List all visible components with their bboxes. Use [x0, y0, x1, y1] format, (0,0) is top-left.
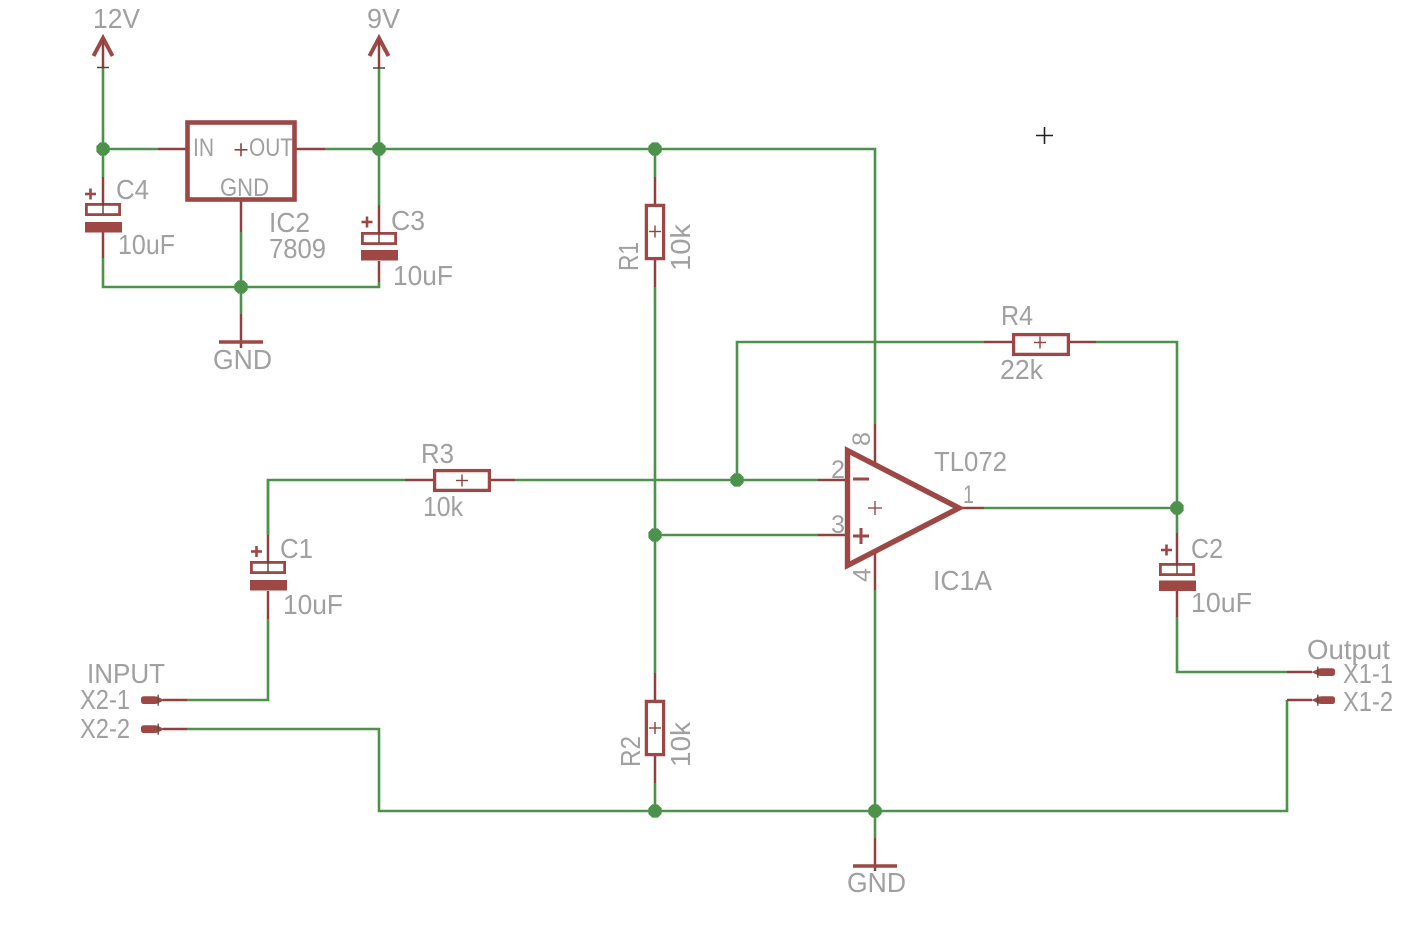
- wire R3 right to node A: [515, 479, 737, 482]
- pin R1 bottom: [654, 260, 657, 287]
- svg-text:X2-1: X2-1: [80, 684, 130, 715]
- wire node A to op-amp pin 2: [737, 479, 818, 482]
- svg-text:10uF: 10uF: [1191, 587, 1252, 618]
- wire R1 bottom to R2 top (divider): [654, 287, 657, 673]
- svg-text:X1-1: X1-1: [1343, 658, 1393, 689]
- pin C2 bottom: [1176, 591, 1179, 617]
- wire 12V down to C4: [102, 149, 105, 177]
- svg-text:X2-2: X2-2: [80, 713, 130, 744]
- wire 12V rail to IC2 IN: [103, 148, 158, 151]
- wire C4 bottom to ground rail: [103, 258, 241, 287]
- wire R2 bottom to bottom bus: [654, 783, 657, 811]
- wire node A up to feedback R4 left: [737, 342, 984, 480]
- junction bottom bus / R2: [648, 804, 661, 817]
- svg-text:GND: GND: [847, 867, 906, 898]
- connector pad X2-2: [141, 724, 165, 735]
- wire C1 upper segment: [267, 480, 270, 535]
- wire C2 bottom to X1-1: [1177, 617, 1287, 672]
- capacitor C2: [1159, 545, 1196, 592]
- junction bottom bus / GND2: [868, 804, 881, 817]
- connector pad X1-2: [1311, 695, 1335, 706]
- pin R2 bottom: [654, 756, 657, 783]
- svg-text:7809: 7809: [269, 233, 326, 264]
- svg-text:22k: 22k: [1000, 354, 1044, 385]
- wire op-amp pin 4 down to bottom bus: [874, 590, 877, 811]
- svg-text:2: 2: [831, 456, 845, 484]
- svg-text:8: 8: [848, 432, 876, 446]
- pin IC2 GND: [240, 201, 243, 232]
- svg-text:10uF: 10uF: [283, 589, 343, 620]
- wire 9V supply stub: [378, 68, 381, 149]
- sheet origin cross: [1036, 127, 1053, 144]
- junction output node / C2: [1170, 501, 1183, 514]
- junction divider / pin 3: [648, 528, 661, 541]
- pin R4 right: [1070, 341, 1096, 344]
- PINS: [103, 149, 1312, 871]
- svg-text:9V: 9V: [367, 3, 400, 34]
- pin R2 top: [654, 673, 657, 700]
- voltage regulator IC2 box: [188, 123, 295, 200]
- pin GND2 symbol: [874, 838, 877, 871]
- svg-text:R4: R4: [1001, 300, 1033, 331]
- svg-text:C4: C4: [116, 174, 149, 205]
- svg-text:10uF: 10uF: [118, 229, 175, 260]
- pin IC2 OUT: [296, 148, 325, 151]
- svg-text:10k: 10k: [423, 491, 464, 522]
- pin C3 bottom: [378, 261, 381, 282]
- svg-text:IN: IN: [193, 134, 214, 162]
- connector pad X2-1: [141, 695, 165, 706]
- wire ground rail to C3 bottom: [241, 282, 379, 287]
- wire bottom bus to X2-2: [187, 729, 655, 811]
- svg-text:R3: R3: [421, 438, 454, 469]
- svg-text:10k: 10k: [665, 721, 696, 767]
- wire bottom bus stub to GND symbol: [874, 811, 877, 838]
- wire 9V rail from IC2 OUT to pin 8 corner: [325, 149, 875, 424]
- pin C3 top: [378, 205, 381, 232]
- wire op-amp output to output node: [984, 507, 1177, 510]
- svg-text:12V: 12V: [93, 3, 140, 34]
- wire X2-1 to C1 bottom: [187, 619, 268, 700]
- pin C1 top: [267, 535, 270, 562]
- svg-text:10uF: 10uF: [393, 260, 453, 291]
- wire R4 right to output node: [1096, 342, 1177, 508]
- pin op-amp 1 output: [957, 507, 984, 510]
- pin C2 top: [1176, 533, 1179, 564]
- wire 9V down to C3: [378, 149, 381, 205]
- pin R3 left: [405, 479, 433, 482]
- svg-text:X1-2: X1-2: [1343, 686, 1393, 717]
- pin R1 top: [654, 177, 657, 204]
- connector pad X1-1: [1311, 667, 1335, 678]
- svg-text:IC1A: IC1A: [933, 565, 992, 596]
- resistor R1: [646, 205, 663, 258]
- pin op-amp 4: [874, 551, 877, 590]
- pin op-amp 3: [818, 534, 849, 537]
- capacitor C4: [85, 189, 122, 233]
- pin C4 bottom: [102, 232, 105, 258]
- svg-text:C3: C3: [391, 205, 425, 236]
- op-amp IC1A: [848, 451, 960, 566]
- capacitor C3: [361, 217, 398, 261]
- pin C4 top: [102, 177, 105, 204]
- svg-text:3: 3: [831, 511, 845, 539]
- resistor R4: [1014, 335, 1069, 355]
- junction 12V rail / C4: [96, 142, 109, 155]
- pin R4 left: [984, 341, 1012, 344]
- supply symbol 9V: [370, 38, 389, 68]
- wire bottom bus mid: [655, 810, 875, 813]
- svg-text:1: 1: [963, 481, 974, 509]
- pin IC2 IN: [158, 148, 186, 151]
- pin X1-2: [1287, 699, 1312, 702]
- wire IC2 GND pin to ground rail: [240, 232, 243, 287]
- capacitor C1: [250, 546, 287, 591]
- svg-text:GND: GND: [213, 344, 272, 375]
- resistor R3: [435, 471, 490, 491]
- pin op-amp 8: [874, 424, 877, 466]
- pin X2-2: [163, 728, 187, 731]
- wire 12V supply stub: [102, 68, 105, 149]
- pin GND1 symbol: [240, 314, 243, 348]
- svg-text:10k: 10k: [665, 223, 696, 271]
- wire X1-2 down to bottom bus: [875, 700, 1287, 811]
- wire ground rail stub to GND symbol: [240, 287, 243, 314]
- pin C1 bottom: [267, 591, 270, 619]
- pin X2-1: [163, 699, 187, 702]
- svg-text:C2: C2: [1191, 533, 1223, 564]
- junction 9V rail / C3: [372, 142, 385, 155]
- svg-text:R1: R1: [613, 242, 644, 271]
- svg-text:R2: R2: [615, 736, 646, 767]
- supply symbol 12V: [94, 38, 113, 68]
- svg-text:OUT: OUT: [249, 134, 293, 162]
- pin X1-1: [1287, 671, 1312, 674]
- ground symbol GND1: [219, 340, 263, 343]
- wire output node down to C2: [1176, 508, 1179, 533]
- wire divider to op-amp pin 3: [655, 534, 818, 537]
- svg-text:GND: GND: [220, 174, 269, 202]
- svg-text:4: 4: [849, 568, 877, 582]
- junction ground rail / GND1: [234, 280, 247, 293]
- wire 9V rail to R1 top: [654, 149, 657, 177]
- junction node A (R3/R4/pin2): [730, 473, 743, 486]
- pin op-amp 2: [818, 479, 849, 482]
- pin R3 right: [491, 479, 515, 482]
- svg-text:TL072: TL072: [934, 446, 1007, 477]
- wire C1 top to R3 left: [268, 480, 405, 535]
- svg-text:C1: C1: [280, 533, 313, 564]
- resistor R2: [646, 701, 663, 754]
- junction 9V rail / R1: [648, 142, 661, 155]
- ground symbol GND2: [853, 864, 897, 867]
